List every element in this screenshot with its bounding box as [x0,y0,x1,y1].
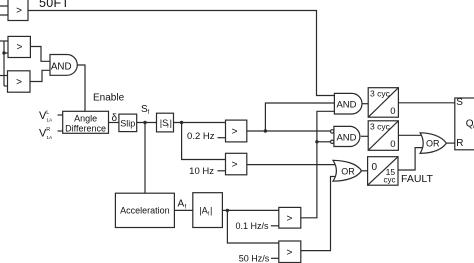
wire 0.1Hz/s output to AND U1 [301,111,336,218]
AND gate U5 [50,55,77,76]
wire OR U3 to timer T3 [362,170,368,172]
wire timer T1 to latch S [398,102,454,104]
svg-text:L: L [46,110,49,116]
wire Enable [77,65,85,111]
svg-text:R: R [456,138,463,149]
comparator 50FT [8,0,28,21]
svg-text:Difference: Difference [65,123,106,133]
svg-text:1A: 1A [46,135,53,141]
wire 10Hz label stub [218,170,226,172]
svg-text:Acceleration: Acceleration [120,206,170,216]
block abs-Af [193,193,223,228]
wire 0.2Hz to AND U1 [265,103,336,131]
wire VR input stub [58,130,63,132]
AND U2 input bubble 1 [331,130,334,133]
wire 0.1Hz/s to AND U2 bubble [317,141,331,143]
wire VL input stub [58,114,63,116]
svg-text:50FT: 50FT [39,0,69,10]
svg-text:>: > [286,213,292,224]
svg-text:>: > [16,6,22,17]
latch SR [455,98,474,150]
junction abs-Af node [226,209,229,212]
comparator 10Hz [226,153,247,175]
wire 50Hz/s output to OR U3 [301,177,338,251]
svg-text:A: A [178,199,185,210]
wire FAULT to OR U4 [398,148,423,170]
svg-text:0: 0 [390,139,395,150]
wire 50FT to AND U1 [28,11,336,96]
timer T3 [368,157,398,186]
latch Q output label [466,119,474,131]
svg-text:OR: OR [341,166,355,176]
svg-text:>: > [16,77,22,88]
timer T3 diagonal [368,157,398,186]
svg-text:|: | [210,206,212,216]
svg-text:cyc: cyc [384,176,396,185]
label V L 1A [39,110,53,124]
wire comparator C to AND U5 [30,70,51,81]
svg-text:|: | [170,118,172,128]
abs-Af label [199,206,212,218]
svg-text:10 Hz: 10 Hz [189,166,214,177]
AND gate U2 [334,126,360,146]
wire 50Hz/s label stub [271,257,279,259]
junction 0.2Hz node [264,129,267,132]
comparator C [8,71,31,92]
block Angle Difference [63,111,109,133]
wire abs-Sf to 10Hz comparator [182,123,226,160]
svg-text:>: > [286,247,292,258]
svg-text:3 cyc: 3 cyc [370,121,391,131]
comparator 0.2Hz [226,120,247,142]
svg-text:Angle: Angle [74,113,97,123]
svg-text:0.1 Hz/s: 0.1 Hz/s [235,221,269,231]
wire Acceleration to abs-A [174,209,192,211]
svg-text:FAULT: FAULT [401,173,433,185]
junction 0.1Hz/s node [315,140,318,143]
svg-text:Slip: Slip [120,118,135,128]
label V R 1A [39,127,53,141]
timer T1 [368,88,398,118]
wire junction to comparator B [4,52,8,54]
OR gate U3 [333,160,362,181]
label Af [178,199,187,211]
wire 0.2Hz label stub [218,137,226,139]
OR gate U4 [420,133,446,154]
svg-text:0.2 Hz: 0.2 Hz [187,131,215,142]
wire abs-Sf to comparators [174,122,226,124]
wire abs-Af to comparators [222,209,278,211]
wire comparator B to AND U5 [30,47,51,62]
wire AND U1 to timer T1 [362,103,368,105]
abs-Sf label [160,118,172,130]
comparator B [8,36,30,57]
svg-text:R: R [46,127,50,133]
wire AND U2 to timer T2 [361,135,368,137]
wire OR U4 to latch R [446,142,454,144]
block Slip [119,114,137,132]
svg-text:S: S [456,97,463,108]
comparator 50FT input wires [0,6,8,15]
wire delta [109,122,119,124]
svg-text:1A: 1A [46,118,53,124]
svg-text:0: 0 [372,162,378,173]
svg-text:3 cyc: 3 cyc [370,88,391,98]
wire reference to comparator C [4,85,8,87]
svg-text:δ: δ [112,113,118,124]
svg-text:AND: AND [336,100,356,111]
wire timer T2 to OR U4 [398,134,423,136]
junction Sf node [143,121,146,124]
svg-text:f: f [148,110,150,116]
comparator 50Hz/s [279,241,301,263]
wire abs-Af to 50Hz/s comparator [227,210,278,243]
wire Slip to abs-S [137,122,157,124]
junction abs-Sf node [180,121,183,124]
timer T1 diagonal [368,88,398,118]
svg-text:>: > [232,127,238,138]
Angle Difference label [65,113,106,133]
comparator C input wire [0,75,8,77]
block abs-Sf [157,113,174,132]
wire 0.2Hz comparator output [247,130,331,132]
timer T2 [368,121,398,151]
comparator B input wire [0,40,8,42]
wire 10Hz comparator to OR U3 [247,164,338,166]
svg-text:Enable: Enable [93,92,125,103]
AND gate U1 [334,93,362,114]
AND U2 input bubble 2 [331,140,334,143]
svg-text:0: 0 [390,106,395,117]
label Sf [141,104,150,116]
wire shared reference vertical [3,41,5,86]
svg-text:AND: AND [51,62,72,73]
svg-text:50 Hz/s: 50 Hz/s [239,254,270,263]
svg-text:OR: OR [426,138,440,148]
svg-text:>: > [16,42,22,53]
comparator 0.1Hz/s [279,207,301,228]
timer T2 diagonal [368,121,398,151]
junction comparator B input [2,51,5,54]
svg-text:>: > [232,160,238,171]
svg-text:f: f [185,205,187,211]
block Acceleration [115,193,174,227]
svg-text:AND: AND [336,133,356,144]
wire Sf to Acceleration [144,123,146,194]
wire 0.1Hz/s label stub [271,225,279,227]
